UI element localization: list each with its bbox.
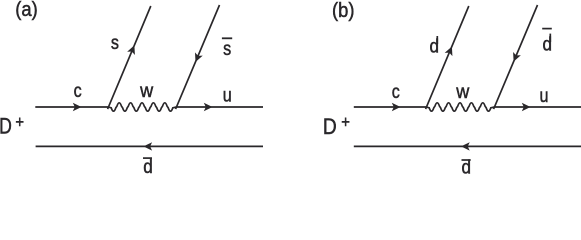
svg-text:w: w: [455, 81, 470, 103]
svg-text:+: +: [15, 114, 24, 132]
arrow on u line (a): [204, 103, 213, 111]
arrow on s-bar line (a) pointing toward vertex: [192, 52, 203, 63]
arrow on d-bar bottom line (b) pointing left: [461, 142, 470, 150]
arrow on u line (b): [522, 103, 531, 111]
svg-text:(a): (a): [15, 0, 37, 21]
svg-text:d: d: [429, 36, 439, 57]
boson W wavy line (a): [108, 103, 176, 111]
boson W wavy line (b): [426, 103, 494, 111]
arrow on d-bar line (b) pointing toward vertex: [510, 52, 521, 63]
svg-text:u: u: [540, 85, 549, 107]
quark u line (a): [177, 106, 264, 108]
svg-text:c: c: [392, 81, 400, 103]
svg-text:d: d: [143, 156, 153, 177]
svg-text:w: w: [139, 79, 154, 101]
svg-text:s: s: [111, 32, 119, 54]
antiquark d-bar bottom line (a): [36, 145, 263, 147]
svg-text:+: +: [341, 114, 350, 132]
antiquark s-bar line (a): [176, 5, 220, 109]
arrow on c line (b): [392, 103, 401, 111]
quark s line (a): [108, 6, 151, 109]
svg-text:u: u: [223, 84, 232, 106]
antiquark d-bar bottom line (b): [354, 145, 581, 147]
svg-text:s: s: [223, 38, 231, 60]
label d (b): [436, 36, 438, 44]
arrow on c line (a): [73, 103, 82, 111]
label d-bar top (b): [549, 34, 551, 42]
arrow on s line (a): [127, 44, 138, 55]
svg-text:d: d: [542, 34, 552, 55]
quark u line (b): [495, 106, 581, 108]
svg-text:D: D: [0, 115, 12, 139]
antiquark d-bar line (b): [494, 5, 538, 109]
svg-text:c: c: [74, 80, 82, 102]
arrow on d-bar bottom line (a) pointing left: [143, 142, 152, 150]
wire c quark line (a): [35, 106, 108, 108]
arrow on d line (b): [445, 45, 456, 56]
quark d line (b): [426, 6, 469, 109]
svg-text:D: D: [323, 115, 337, 140]
wire c quark line (b): [354, 106, 427, 108]
svg-text:(b): (b): [332, 0, 354, 22]
